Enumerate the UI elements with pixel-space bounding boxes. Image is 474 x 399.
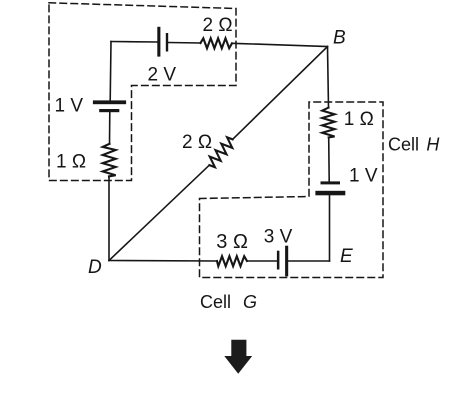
svg-text:E: E bbox=[340, 246, 353, 267]
resistor R 2ohm (diagonal) bbox=[209, 137, 232, 167]
wire: 1 ohm resistor to 1V battery (Cell H) bbox=[328, 137, 331, 181]
resistor R 3ohm (bottom) bbox=[217, 256, 247, 266]
wire: node B down to 1 ohm resistor (right) bbox=[328, 47, 329, 108]
battery cell 1V (Cell H): long plate bbox=[315, 191, 345, 196]
svg-text:1 V: 1 V bbox=[55, 96, 84, 117]
svg-text:D: D bbox=[88, 257, 102, 278]
wire: 1 ohm resistor to node D bbox=[108, 176, 110, 260]
battery cell 3V: long plate bbox=[285, 246, 288, 277]
svg-text:3 V: 3 V bbox=[264, 227, 293, 248]
battery cell 1V (Cell H): short plate bbox=[321, 181, 341, 184]
svg-text:1 Ω: 1 Ω bbox=[56, 152, 86, 173]
svg-text:1 V: 1 V bbox=[349, 165, 378, 186]
svg-text:1 Ω: 1 Ω bbox=[344, 109, 374, 130]
wire: 3 ohm resistor to node D bbox=[109, 260, 217, 263]
wire: diagonal 2 ohm resistor to node D bbox=[109, 165, 209, 260]
wire: top-left corner down to 1V battery bbox=[109, 42, 112, 101]
svg-text:CellG: CellG bbox=[200, 292, 257, 312]
battery cell 3V: short plate bbox=[277, 251, 280, 270]
svg-text:2 Ω: 2 Ω bbox=[182, 132, 212, 153]
battery cell 1V left: long plate bbox=[93, 100, 126, 104]
dashed enclosure box (top-left L-shape around 2V cell and 1V/1Ohm branch) bbox=[49, 3, 236, 181]
resistor R 1ohm (right, Cell H) bbox=[322, 108, 334, 138]
wire: top-left corner to 2V battery bbox=[111, 41, 157, 44]
wire: 2 ohm resistor to node B bbox=[232, 43, 328, 46]
battery cell 2V: short plate bbox=[166, 33, 168, 52]
wire: 3V battery to 3 ohm resistor bbox=[247, 260, 277, 262]
resistor R 1ohm (left) bbox=[103, 144, 116, 177]
wire: 1V battery (Cell H) down to node E bbox=[329, 196, 331, 262]
battery cell 1V left: short plate bbox=[99, 109, 119, 112]
svg-text:3 Ω: 3 Ω bbox=[216, 231, 248, 253]
svg-text:CellH: CellH bbox=[388, 135, 440, 155]
svg-text:2 V: 2 V bbox=[148, 65, 177, 86]
wire: 1V battery to 1 ohm resistor (left) bbox=[109, 112, 111, 144]
arrow (downward, bottom center) bbox=[224, 340, 252, 374]
wire: diagonal node B to 2 ohm resistor bbox=[233, 47, 328, 140]
wire: node E to 3V battery bbox=[289, 260, 330, 262]
wire: 2V battery to 2 ohm resistor bbox=[169, 42, 201, 45]
svg-text:2 Ω: 2 Ω bbox=[203, 15, 233, 36]
resistor R 2ohm (top) bbox=[201, 38, 233, 48]
dashed enclosure box (Cell G and Cell H combined) bbox=[200, 102, 384, 278]
battery cell 2V: long plate bbox=[157, 27, 160, 57]
svg-text:B: B bbox=[333, 28, 346, 49]
